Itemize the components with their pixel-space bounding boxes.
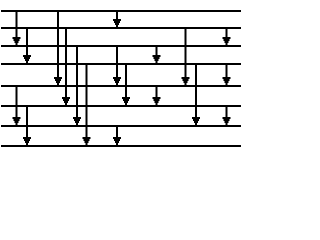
level line L2	[1, 27, 241, 29]
level line L3	[1, 45, 241, 47]
arrow x196 from L4 to L7	[192, 64, 200, 126]
level line L1	[1, 10, 241, 12]
level line L6	[1, 105, 241, 107]
level line L5	[1, 85, 241, 87]
arrow x226.5 from L6 to L7	[223, 106, 231, 126]
arrow x156.5 from L3 to L4	[153, 46, 161, 64]
level line L8	[1, 145, 241, 147]
arrow x86.5 from L4 to L8	[83, 64, 91, 146]
arrow x126 from L4 to L6	[122, 64, 130, 106]
arrow x27 from L6 to L8	[23, 106, 31, 146]
arrow x117 from L1 to L2	[113, 11, 121, 28]
level line L7	[1, 125, 241, 127]
arrow x226.5 from L2 to L3	[223, 28, 231, 46]
arrow x58 from L1 to L5	[54, 11, 62, 86]
arrow x16.5 from L5 to L7	[13, 86, 21, 126]
level line L4	[1, 63, 241, 65]
arrow x185.5 from L2 to L5	[182, 28, 190, 86]
arrow x156.5 from L5 to L6	[153, 86, 161, 106]
arrow x27 from L2 to L4	[23, 28, 31, 64]
arrow x16.5 from L1 to L3	[13, 11, 21, 46]
arrow x117 from L7 to L8	[113, 126, 121, 146]
arrow x117 from L3 to L5	[113, 46, 121, 86]
arrow x77 from L3 to L7	[73, 46, 81, 126]
arrow x66 from L2 to L6	[62, 28, 70, 106]
arrow x226.5 from L4 to L5	[223, 64, 231, 86]
